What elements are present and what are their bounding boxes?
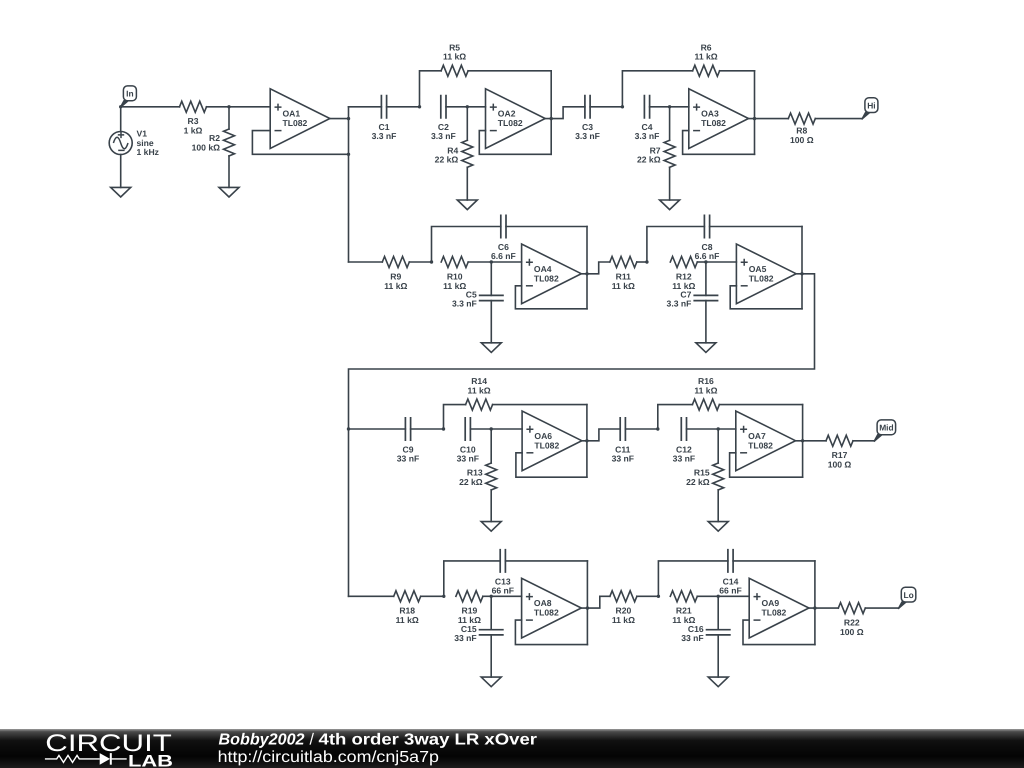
svg-text:http://circuitlab.com/cnj5a7p: http://circuitlab.com/cnj5a7p	[218, 749, 440, 766]
wire	[470, 428, 491, 430]
wire	[586, 561, 588, 645]
label R14 value	[468, 376, 491, 395]
label R15 value	[686, 468, 710, 487]
svg-text:R11: R11	[616, 271, 632, 281]
node OA9 output	[813, 606, 816, 609]
svg-text:100 Ω: 100 Ω	[840, 627, 864, 637]
label R13 value	[459, 468, 483, 487]
capacitor C5	[479, 262, 504, 343]
svg-text:Lo: Lo	[903, 590, 913, 600]
wire OA7 output	[796, 440, 827, 442]
capacitor C4	[644, 95, 649, 119]
wire	[687, 428, 719, 430]
wire OA4 output	[581, 262, 610, 274]
ground R7	[660, 200, 680, 210]
wire OA1 output	[330, 118, 349, 120]
svg-text:TL082: TL082	[748, 440, 773, 450]
resistor R6	[622, 65, 754, 107]
capacitor C16	[706, 596, 731, 677]
svg-text:/: /	[310, 731, 315, 748]
op-amp OA6	[522, 411, 582, 471]
svg-text:OA8: OA8	[534, 598, 552, 608]
wire	[697, 595, 718, 597]
svg-text:TL082: TL082	[283, 118, 308, 128]
wire	[229, 106, 270, 108]
node OA7 output	[801, 439, 804, 442]
svg-text:TL082: TL082	[534, 608, 559, 618]
wire	[815, 118, 862, 120]
svg-text:R20: R20	[616, 606, 632, 616]
wire	[802, 405, 804, 478]
node R18-R19 junction	[442, 595, 445, 598]
svg-text:33 nF: 33 nF	[454, 633, 476, 643]
capacitor C3	[585, 95, 590, 119]
node C1-C2 junction	[418, 105, 421, 108]
node OA2 output	[550, 117, 553, 120]
resistor R7	[664, 107, 675, 200]
resistor R14	[444, 399, 587, 429]
wire OA4 feedback	[515, 286, 587, 309]
node R10-C5 junction	[490, 260, 493, 263]
node In junction	[119, 105, 122, 108]
ground C16	[708, 677, 728, 687]
wire	[468, 261, 491, 263]
svg-text:V1: V1	[137, 128, 148, 138]
svg-text:OA4: OA4	[534, 264, 552, 274]
svg-text:R19: R19	[462, 606, 478, 616]
wire	[697, 261, 706, 263]
svg-text:OA7: OA7	[748, 431, 766, 441]
net flag In	[120, 86, 136, 108]
svg-text:11 kΩ: 11 kΩ	[695, 52, 718, 62]
wire OA5 feedback	[730, 286, 802, 309]
wire OA5 output	[349, 274, 815, 597]
wire OA8 feedback	[515, 620, 587, 645]
svg-text:4th order 3way LR xOver: 4th order 3way LR xOver	[319, 731, 538, 748]
wire	[718, 595, 749, 597]
svg-text:R10: R10	[447, 271, 463, 281]
node C4-R7 junction	[668, 105, 671, 108]
svg-text:11 kΩ: 11 kΩ	[612, 281, 635, 291]
wire OA3 feedback	[683, 131, 755, 155]
wire	[853, 440, 874, 442]
svg-text:TL082: TL082	[749, 273, 774, 283]
svg-text:3.3 nF: 3.3 nF	[372, 131, 397, 141]
wire OA9 feedback	[743, 620, 815, 645]
wire	[207, 106, 230, 108]
wire	[467, 106, 485, 108]
label C10 value	[457, 444, 479, 463]
ground R13	[481, 522, 501, 532]
ground C7	[696, 343, 716, 353]
net flag Lo	[898, 587, 916, 609]
label C3 value	[575, 122, 600, 141]
svg-text:66 nF: 66 nF	[719, 585, 741, 595]
resistor R16	[658, 399, 803, 429]
svg-text:22 kΩ: 22 kΩ	[435, 155, 459, 165]
node OA8 output	[586, 606, 589, 609]
node C12-R15 junction	[717, 427, 720, 430]
svg-text:R18: R18	[399, 606, 415, 616]
svg-text:1 kHz: 1 kHz	[137, 147, 159, 157]
wire	[706, 261, 737, 263]
node C10-R13 junction	[490, 427, 493, 430]
node R21-C16 junction	[717, 595, 720, 598]
label C11 value	[612, 444, 634, 463]
CircuitLab logo	[45, 730, 173, 768]
resistor R17	[826, 435, 853, 446]
node R9-R10 junction	[430, 260, 433, 263]
resistor R20	[610, 591, 637, 602]
svg-text:33 nF: 33 nF	[612, 453, 634, 463]
wire	[446, 106, 467, 108]
svg-text:Mid: Mid	[879, 423, 893, 433]
label C8 value	[695, 242, 720, 261]
wire	[421, 595, 444, 597]
wire	[801, 227, 803, 309]
op-amp OA1	[270, 89, 330, 149]
svg-text:TL082: TL082	[534, 440, 559, 450]
wire	[586, 227, 588, 309]
op-amp OA8	[522, 578, 582, 638]
wire	[625, 428, 657, 430]
label V1 value	[137, 128, 159, 157]
label C2 value	[431, 122, 456, 141]
wire	[349, 261, 383, 263]
node OA4 output	[585, 272, 588, 275]
op-amp OA9	[749, 578, 809, 638]
label C14 value	[719, 576, 741, 595]
svg-text:11 kΩ: 11 kΩ	[694, 385, 717, 395]
node OA1 output	[347, 117, 350, 120]
svg-text:33 nF: 33 nF	[673, 453, 695, 463]
wire OA6 output	[582, 429, 620, 441]
label R21 value	[672, 606, 695, 626]
svg-text:6.6 nF: 6.6 nF	[491, 251, 516, 261]
wire	[637, 261, 647, 263]
svg-text:3.3 nF: 3.3 nF	[667, 299, 692, 309]
svg-text:100 kΩ: 100 kΩ	[192, 143, 221, 153]
label C7 value	[667, 290, 692, 309]
node C9-C10 junction	[442, 427, 445, 430]
wire OA8 output	[581, 596, 610, 608]
svg-text:TL082: TL082	[534, 273, 559, 283]
node R20-R21 junction	[657, 595, 660, 598]
svg-text:R12: R12	[676, 271, 692, 281]
wire	[491, 261, 521, 263]
capacitor C13	[444, 549, 588, 596]
wire	[590, 106, 622, 108]
node OA6 output	[585, 439, 588, 442]
wire	[637, 595, 659, 597]
capacitor C1	[381, 95, 386, 119]
wire OA2 output	[545, 107, 585, 119]
label R18 value	[396, 606, 419, 626]
wire	[814, 561, 816, 645]
wire	[409, 261, 431, 263]
svg-text:TL082: TL082	[762, 608, 787, 618]
svg-text:11 kΩ: 11 kΩ	[468, 385, 491, 395]
wire	[491, 595, 521, 597]
svg-text:11 kΩ: 11 kΩ	[443, 281, 466, 291]
wire	[670, 106, 689, 108]
svg-text:In: In	[126, 89, 133, 99]
capacitor C7	[693, 262, 718, 343]
resistor R11	[610, 257, 637, 268]
op-amp OA4	[522, 244, 582, 304]
label R20 value	[612, 606, 635, 626]
label C1 value	[372, 122, 397, 141]
svg-text:11 kΩ: 11 kΩ	[443, 52, 466, 62]
svg-text:TL082: TL082	[498, 118, 523, 128]
resistor R15	[713, 429, 724, 522]
resistor R9	[382, 257, 409, 268]
svg-text:22 kΩ: 22 kΩ	[686, 477, 710, 487]
op-amp OA3	[689, 89, 749, 149]
node OA5 output	[800, 272, 803, 275]
wire	[491, 428, 522, 430]
ground C15	[481, 677, 501, 687]
ground R15	[708, 522, 728, 532]
label C13 value	[492, 576, 514, 595]
wire	[650, 106, 670, 108]
svg-text:1 kΩ: 1 kΩ	[184, 126, 203, 136]
node R2 junction	[227, 105, 230, 108]
svg-text:OA3: OA3	[701, 109, 719, 119]
node OA1 feedback junction	[347, 153, 350, 156]
label C6 value	[491, 242, 516, 261]
wire	[411, 428, 444, 430]
label R4 value	[435, 146, 459, 165]
svg-text:66 nF: 66 nF	[492, 585, 514, 595]
label R17 value	[828, 450, 852, 469]
svg-text:OA5: OA5	[749, 264, 767, 274]
net flag Mid	[874, 420, 896, 442]
svg-text:OA2: OA2	[498, 109, 516, 119]
svg-text:3.3 nF: 3.3 nF	[452, 299, 477, 309]
label R12 value	[672, 271, 695, 291]
svg-text:100 Ω: 100 Ω	[790, 135, 814, 145]
resistor R13	[486, 429, 497, 522]
capacitor C10	[465, 417, 470, 441]
svg-text:6.6 nF: 6.6 nF	[695, 251, 720, 261]
svg-text:OA6: OA6	[534, 431, 552, 441]
svg-text:TL082: TL082	[701, 118, 726, 128]
node C2-R4 junction	[466, 105, 469, 108]
node OA3 output	[753, 117, 756, 120]
resistor R21	[670, 591, 697, 602]
capacitor C6	[432, 215, 588, 263]
node C11-C12 junction	[656, 427, 659, 430]
svg-text:OA9: OA9	[762, 598, 780, 608]
label R11 value	[612, 271, 635, 291]
ground R4	[457, 200, 477, 210]
svg-text:3.3 nF: 3.3 nF	[431, 131, 456, 141]
label R5 value	[443, 42, 466, 61]
resistor R19	[456, 591, 483, 602]
svg-text:3.3 nF: 3.3 nF	[575, 131, 600, 141]
capacitor C9	[405, 417, 410, 441]
ground C5	[481, 343, 501, 353]
label R8 value	[790, 125, 814, 144]
wire	[121, 106, 180, 108]
label C4 value	[635, 122, 660, 141]
label R19 value	[458, 606, 481, 626]
wire	[483, 595, 491, 597]
voltage source V1	[109, 107, 132, 188]
svg-text:R9: R9	[390, 271, 401, 281]
svg-text:Bobby2002: Bobby2002	[219, 731, 305, 748]
wire	[348, 107, 350, 262]
wire OA9 output	[809, 607, 838, 609]
node C3-C4 junction	[621, 105, 624, 108]
capacitor C8	[647, 215, 802, 263]
svg-text:R2: R2	[209, 133, 220, 143]
svg-text:11 kΩ: 11 kΩ	[612, 615, 635, 625]
resistor R12	[670, 257, 697, 268]
op-amp OA5	[736, 244, 796, 304]
svg-text:R21: R21	[676, 606, 692, 616]
wire	[586, 405, 588, 478]
svg-text:11 kΩ: 11 kΩ	[396, 615, 419, 625]
wire OA2 feedback	[479, 131, 551, 155]
wire	[718, 428, 736, 430]
label R2 value	[192, 133, 221, 153]
wire OA3 output	[749, 118, 789, 120]
resistor R2	[224, 107, 235, 188]
capacitor C15	[479, 596, 504, 677]
label R22 value	[840, 618, 864, 637]
ground V1	[111, 187, 131, 197]
label R3 value	[184, 116, 203, 136]
svg-text:22 kΩ: 22 kΩ	[459, 477, 483, 487]
op-amp OA2	[486, 89, 546, 149]
wire	[754, 71, 756, 155]
wire	[349, 595, 394, 597]
wire OA1 feedback	[252, 131, 348, 155]
node R19-C15 junction	[490, 595, 493, 598]
label C5 value	[452, 290, 477, 309]
resistor R4	[462, 107, 473, 200]
net flag Hi	[862, 98, 878, 120]
node R12-C7 junction	[704, 260, 707, 263]
svg-text:OA1: OA1	[283, 109, 301, 119]
op-amp OA7	[736, 411, 796, 471]
resistor R8	[788, 113, 815, 124]
wire	[349, 428, 406, 430]
wire OA7 feedback	[730, 453, 803, 477]
resistor R22	[838, 603, 865, 614]
svg-text:R3: R3	[188, 116, 199, 126]
node row3 tap junction	[347, 427, 350, 430]
resistor R5	[420, 65, 552, 107]
svg-text:LAB: LAB	[128, 751, 173, 768]
label C16 value	[681, 624, 704, 643]
capacitor C14	[658, 549, 815, 596]
resistor R10	[441, 257, 468, 268]
svg-text:100 Ω: 100 Ω	[828, 460, 852, 470]
label R16 value	[694, 376, 717, 395]
svg-text:Hi: Hi	[867, 100, 875, 110]
label C15 value	[454, 624, 477, 643]
label R6 value	[695, 42, 718, 61]
svg-text:33 nF: 33 nF	[681, 633, 703, 643]
label R10 value	[443, 271, 466, 291]
capacitor C12	[681, 417, 686, 441]
wire	[865, 607, 898, 609]
svg-text:33 nF: 33 nF	[457, 453, 479, 463]
label R7 value	[637, 146, 661, 165]
node R11-R12 junction	[645, 260, 648, 263]
label C12 value	[673, 444, 695, 463]
resistor R3	[180, 101, 207, 112]
svg-text:22 kΩ: 22 kΩ	[637, 155, 661, 165]
label R9 value	[384, 271, 407, 291]
wire OA6 feedback	[516, 453, 587, 477]
svg-text:33 nF: 33 nF	[397, 453, 419, 463]
capacitor C11	[620, 417, 625, 441]
wire	[349, 106, 382, 108]
capacitor C2	[441, 95, 446, 119]
resistor R18	[394, 591, 421, 602]
wire	[550, 71, 552, 155]
wire	[387, 106, 420, 108]
ground R2	[219, 187, 239, 197]
svg-text:3.3 nF: 3.3 nF	[635, 131, 660, 141]
label C9 value	[397, 444, 419, 463]
svg-text:11 kΩ: 11 kΩ	[384, 281, 407, 291]
